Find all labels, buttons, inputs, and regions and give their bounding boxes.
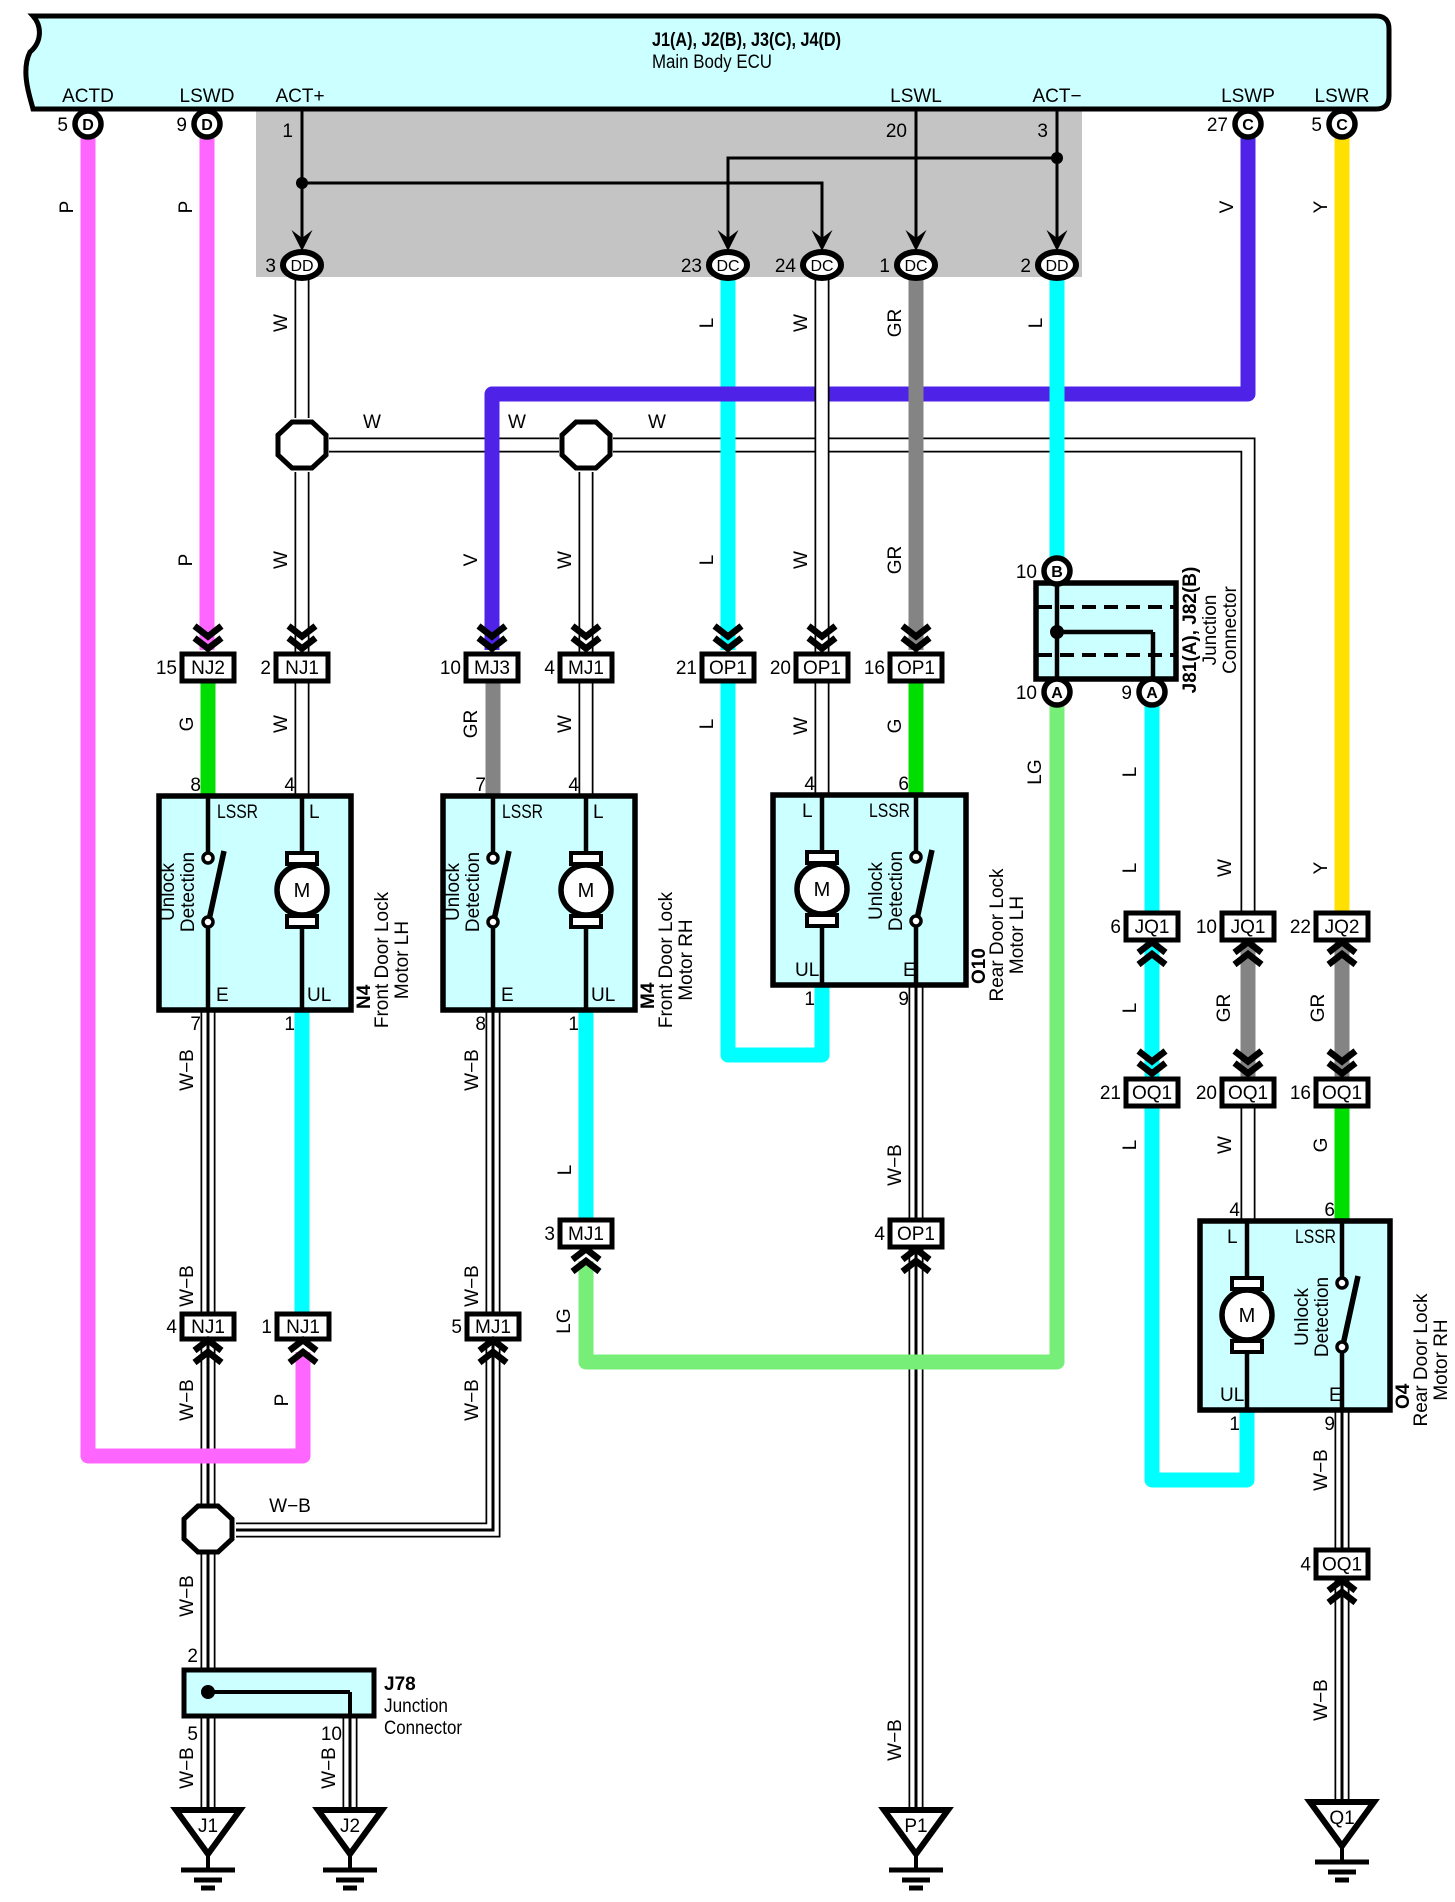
connector DC pin23 (681, 252, 747, 278)
svg-text:Unlock: Unlock (866, 861, 887, 920)
svg-text:Detection: Detection (886, 851, 907, 931)
svg-text:L: L (1227, 1227, 1238, 1248)
label P on pink riser (272, 1394, 293, 1407)
svg-text:LSSR: LSSR (217, 802, 258, 823)
M4 unlock detection text (443, 852, 484, 932)
wire W junction B right and down to JQ1-10 (613, 445, 1248, 913)
svg-text:P: P (176, 201, 197, 214)
label L above OP1-21 (697, 555, 718, 566)
Main Body ECU connector banner J1-J4 (26, 16, 1389, 109)
svg-text:10: 10 (321, 1724, 342, 1745)
connector OP1 pin 20 (770, 654, 848, 681)
label G below OP1-16 (885, 719, 906, 734)
chevron into OP1-16 (903, 626, 930, 649)
arrow into connector at x=1057 (1047, 230, 1068, 251)
svg-text:OQ1: OQ1 (1228, 1083, 1268, 1104)
O10 unlock detection text (866, 851, 907, 931)
chevron into OP1-20 (809, 626, 836, 649)
arrow into connector at x=728 (718, 230, 739, 251)
svg-text:9: 9 (176, 115, 187, 136)
svg-text:9: 9 (1121, 683, 1132, 704)
label J78 junction (384, 1696, 448, 1717)
J78 pin 10 (321, 1724, 342, 1745)
label GR between JQ1-10 OQ1-20 (1214, 994, 1235, 1023)
svg-text:L: L (1120, 863, 1141, 874)
svg-text:10: 10 (1196, 917, 1217, 938)
O10 label E (903, 960, 916, 981)
wire W from DC24 to OP1-20 (815, 277, 830, 654)
svg-text:23: 23 (681, 256, 702, 277)
wire W-B O10 E to OP1-4 (909, 981, 924, 1220)
pin name ACT&#8722; (1032, 86, 1081, 107)
wire W MJ1-4 to M4 pin4 (579, 681, 594, 797)
O10 bottom pin 9 (898, 989, 909, 1010)
svg-text:W−B: W−B (885, 1144, 906, 1186)
O10 reference label (969, 948, 990, 984)
svg-text:5: 5 (57, 115, 68, 136)
svg-text:J1: J1 (198, 1816, 218, 1837)
connector NJ1 pin 4 (166, 1314, 234, 1339)
svg-text:P1: P1 (904, 1816, 927, 1837)
svg-text:6: 6 (898, 774, 909, 795)
svg-text:3: 3 (544, 1224, 555, 1245)
connector OQ1 pin 16 (1290, 1079, 1368, 1106)
wire W-B J78 pin5 to ground J1 (201, 1714, 216, 1812)
svg-text:4: 4 (544, 658, 555, 679)
wire W-B OP1-4 to ground P1 (909, 1247, 924, 1812)
svg-text:W: W (363, 412, 381, 433)
svg-text:W−B: W−B (1311, 1449, 1332, 1491)
wire V LSWP to MJ3-10 (492, 136, 1248, 650)
O4 label UL (1220, 1385, 1244, 1406)
wire W NJ1-2 to N4 pin4 (295, 681, 310, 797)
label W below junction A (271, 551, 292, 569)
connector OQ1 pin 4 (1300, 1550, 1368, 1578)
svg-text:W−B: W−B (1311, 1679, 1332, 1721)
O4 unlock detection text (1292, 1277, 1333, 1357)
pin number 20 (886, 121, 907, 142)
ground J1 (176, 1810, 240, 1888)
svg-text:DC: DC (716, 258, 739, 275)
svg-text:D: D (201, 117, 213, 134)
label W-B below MJ1-5 (462, 1379, 483, 1421)
N4 unlock detection switch (203, 851, 224, 927)
O4 label L (1227, 1227, 1238, 1248)
label GR above OP1-16 (885, 546, 906, 575)
connector MJ1 pin 3 (544, 1220, 612, 1247)
O4 reference label (1393, 1383, 1414, 1409)
junction A octagon (278, 422, 326, 468)
svg-text:ACTD: ACTD (62, 86, 114, 107)
label LG below J81 A10 (1025, 759, 1046, 784)
svg-text:Rear Door Lock: Rear Door Lock (1411, 1293, 1432, 1427)
label GR on DC1 wire (885, 309, 906, 338)
label P on ACTD wire (57, 201, 78, 214)
svg-text:8: 8 (190, 775, 201, 796)
svg-text:LSSR: LSSR (502, 802, 543, 823)
O10 bottom pin 1 (804, 989, 815, 1010)
connector DC pin24 (775, 252, 841, 278)
arrow into connector at x=916 (906, 230, 927, 251)
svg-text:22: 22 (1290, 917, 1311, 938)
chevron into OQ1-16 (1329, 1051, 1356, 1074)
ECU internal shaded region (256, 109, 1082, 277)
arrow into connector at x=822 (812, 230, 833, 251)
svg-text:E: E (903, 960, 916, 981)
junction C octagon (184, 1506, 232, 1552)
junction connector J81(A) J82(B) (1036, 583, 1176, 692)
svg-text:L: L (1120, 767, 1141, 778)
O4 motor column wire (1245, 1221, 1250, 1410)
label W-B below M4 E (462, 1049, 483, 1091)
pin name ACT+ (275, 86, 324, 107)
N4 motor column wire (300, 796, 305, 1010)
svg-text:21: 21 (676, 658, 697, 679)
svg-text:J2: J2 (340, 1816, 360, 1837)
label W below MJ1-4 (555, 715, 576, 733)
label W-B on horizontal to junction C (269, 1496, 311, 1517)
pin name LSWL (890, 86, 942, 107)
connector B pin10 of J81 (1016, 558, 1070, 584)
svg-text:Connector: Connector (1220, 586, 1241, 674)
N4 label E (216, 985, 229, 1006)
svg-text:Rear Door Lock: Rear Door Lock (987, 868, 1008, 1002)
svg-text:Y: Y (1311, 861, 1332, 874)
wire LSWL pin20 to DC1 (915, 109, 918, 248)
svg-text:20: 20 (770, 658, 791, 679)
connector MJ1 pin 5 (451, 1314, 519, 1339)
svg-text:MJ1: MJ1 (568, 658, 604, 679)
svg-text:10: 10 (1016, 562, 1037, 583)
svg-text:L: L (802, 801, 813, 822)
svg-text:GR: GR (885, 309, 906, 338)
O10 name label (987, 868, 1028, 1002)
svg-text:A: A (1146, 685, 1158, 702)
label W-B above MJ1-5 (462, 1265, 483, 1307)
svg-text:24: 24 (775, 256, 797, 277)
svg-text:Junction: Junction (1200, 595, 1221, 666)
svg-text:6: 6 (1110, 917, 1121, 938)
svg-text:LSWD: LSWD (180, 86, 235, 107)
label W-B below O10 E (885, 1144, 906, 1186)
svg-text:J1(A), J2(B), J3(C), J4(D): J1(A), J2(B), J3(C), J4(D) (652, 30, 841, 51)
svg-text:OQ1: OQ1 (1322, 1555, 1362, 1576)
svg-text:LSWL: LSWL (890, 86, 942, 107)
svg-text:NJ1: NJ1 (285, 658, 319, 679)
svg-text:1: 1 (568, 1014, 579, 1035)
svg-text:LSWR: LSWR (1315, 86, 1370, 107)
svg-text:W: W (791, 314, 812, 332)
ground J2 (318, 1810, 382, 1888)
label GR between JQ2-22 OQ1-16 (1308, 994, 1329, 1023)
svg-text:2: 2 (1020, 256, 1031, 277)
svg-text:W−B: W−B (177, 1575, 198, 1617)
wire branch ACT- to DC23 (728, 158, 1057, 248)
connector NJ1 pin 1 (261, 1314, 329, 1339)
N4 label UL (307, 985, 331, 1006)
svg-text:UL: UL (795, 960, 819, 981)
svg-text:J81(A), J82(B): J81(A), J82(B) (1180, 567, 1201, 694)
O4 motor M (1222, 1278, 1272, 1352)
label Y on LSWR wire (1311, 200, 1332, 213)
O10 top pin 6 (898, 774, 909, 795)
svg-text:W−B: W−B (319, 1747, 340, 1789)
svg-text:E: E (1329, 1385, 1342, 1406)
svg-text:V: V (1217, 200, 1238, 213)
O4 bottom pin 9 (1324, 1414, 1335, 1435)
svg-text:DC: DC (904, 258, 927, 275)
label W after violet crossing (508, 412, 526, 433)
svg-text:W: W (555, 715, 576, 733)
svg-text:M: M (294, 880, 311, 902)
svg-text:L: L (697, 719, 718, 730)
svg-text:LSWP: LSWP (1221, 86, 1275, 107)
connector C pin27 LSWP (1207, 111, 1261, 137)
chevron into NJ2-15 (195, 626, 222, 649)
svg-text:4: 4 (284, 775, 295, 796)
svg-text:ACT+: ACT+ (275, 86, 324, 107)
svg-text:Motor LH: Motor LH (1007, 896, 1028, 974)
svg-text:L: L (309, 802, 320, 823)
svg-text:Motor RH: Motor RH (1431, 1319, 1452, 1400)
svg-text:Junction: Junction (384, 1696, 448, 1717)
svg-text:W−B: W−B (462, 1265, 483, 1307)
wire P ACTD to NJ1-1 (88, 136, 303, 1456)
wire L OQ1-21 to O4 UL (1152, 1105, 1247, 1480)
svg-text:OP1: OP1 (709, 658, 747, 679)
connector DD pin2 (1020, 252, 1076, 278)
wire W-B N4 E to NJ1-4 (201, 1006, 216, 1314)
wire Y LSWR to JQ2-22 (1335, 136, 1350, 913)
pin name LSWR (1315, 86, 1370, 107)
chevron below NJ1-4 (195, 1340, 222, 1363)
label W above OP1-20 (791, 551, 812, 569)
svg-text:4: 4 (1300, 1555, 1311, 1576)
connector D pin9 LSWD (176, 111, 220, 137)
svg-text:Motor RH: Motor RH (676, 919, 697, 1000)
svg-text:2: 2 (260, 658, 271, 679)
svg-text:DC: DC (810, 258, 833, 275)
svg-text:GR: GR (461, 710, 482, 739)
svg-text:7: 7 (190, 1014, 201, 1035)
chevron below OQ1-4 (1329, 1580, 1356, 1603)
svg-text:E: E (216, 985, 229, 1006)
connector A pin9 of J81 (1121, 679, 1165, 705)
wire G OQ1-16 to O4 pin6 (1335, 1105, 1350, 1222)
connector JQ1 pin 10 (1196, 913, 1274, 940)
svg-text:W−B: W−B (885, 1719, 906, 1761)
svg-text:4: 4 (1229, 1200, 1240, 1221)
connector JQ2 pin 22 (1290, 913, 1368, 940)
M4 name label (656, 891, 697, 1028)
svg-text:GR: GR (1308, 994, 1329, 1023)
arrow into connector at x=302 (292, 230, 313, 251)
connector DD pin3 (265, 252, 321, 278)
svg-text:1: 1 (1229, 1414, 1240, 1435)
pin number 3 (1037, 121, 1048, 142)
wire L OP1-21 to O10 UL (728, 681, 822, 1055)
chevron into OP1-21 (715, 626, 742, 649)
svg-text:Y: Y (1311, 200, 1332, 213)
svg-text:W: W (1215, 1136, 1236, 1154)
svg-text:Motor LH: Motor LH (392, 921, 413, 999)
svg-text:M: M (578, 880, 595, 902)
N4 reference label (354, 984, 375, 1009)
connector OP1 pin 16 (864, 654, 942, 681)
svg-text:W: W (791, 717, 812, 735)
chevron below MJ1-3 (573, 1249, 600, 1272)
svg-text:5: 5 (187, 1724, 198, 1745)
M4 bottom pin 1 (568, 1014, 579, 1035)
connector OP1 pin 21 (676, 654, 754, 681)
wire LG MJ1-3 to J81 pin10A (586, 705, 1057, 1362)
label W on DD3 wire (271, 314, 292, 332)
svg-text:JQ1: JQ1 (1231, 917, 1266, 938)
svg-text:16: 16 (1290, 1083, 1311, 1104)
M4 label UL (591, 985, 615, 1006)
label W below NJ1-2 (271, 715, 292, 733)
wire branch ACT+ to DC24 (302, 183, 822, 248)
label G below NJ2-15 (177, 717, 198, 732)
label P on LSWD wire lower (176, 554, 197, 567)
O10 label LSSR (869, 801, 910, 822)
wire W OP1-20 to O10 pin4 (815, 681, 830, 796)
label Y above JQ2-22 (1311, 861, 1332, 874)
connector D pin5 ACTD (57, 111, 101, 137)
wire L DC23 to OP1-21 (721, 277, 736, 650)
svg-text:4: 4 (874, 1224, 885, 1245)
label W-B above ground J1 (177, 1747, 198, 1789)
chevron into NJ1-2 (289, 626, 316, 649)
N4 bottom pin 7 (190, 1014, 201, 1035)
svg-text:M: M (1239, 1305, 1256, 1327)
svg-text:JQ1: JQ1 (1135, 917, 1170, 938)
ECU subtitle Main Body ECU (652, 52, 772, 73)
M4 switch column wire (491, 796, 496, 1010)
O10 switch column wire (914, 795, 919, 985)
svg-text:Unlock: Unlock (158, 862, 179, 921)
label W-B below junction C (177, 1575, 198, 1617)
wire L N4 UL to NJ1-1 (295, 1006, 310, 1314)
door lock motor assembly O4 (1200, 1221, 1390, 1410)
M4 reference label (638, 982, 659, 1009)
label W-B above ground P1 (885, 1719, 906, 1761)
svg-text:Unlock: Unlock (443, 862, 464, 921)
svg-text:Main Body ECU: Main Body ECU (652, 52, 772, 73)
label W above JQ1-10 (1215, 859, 1236, 877)
label J78 (384, 1674, 416, 1695)
svg-text:OP1: OP1 (803, 658, 841, 679)
label V on violet drop (461, 553, 482, 566)
svg-text:G: G (1311, 1138, 1332, 1153)
label W below junction B (555, 551, 576, 569)
svg-text:8: 8 (475, 1014, 486, 1035)
svg-text:W: W (648, 412, 666, 433)
svg-text:L: L (593, 802, 604, 823)
svg-text:MJ3: MJ3 (474, 658, 510, 679)
svg-text:L: L (1026, 318, 1047, 329)
svg-text:Detection: Detection (1312, 1277, 1333, 1357)
label L on DC23 wire (697, 318, 718, 329)
N4 unlock detection text (158, 852, 199, 932)
svg-text:LG: LG (554, 1308, 575, 1333)
label LG below MJ1-3 (554, 1308, 575, 1333)
chevron into MJ3-10 (479, 626, 506, 649)
label L on DD2 wire (1026, 318, 1047, 329)
N4 bottom pin 1 (284, 1014, 295, 1035)
chevron into MJ1-4 (573, 626, 600, 649)
svg-text:4: 4 (804, 774, 815, 795)
N4 switch column wire (206, 796, 211, 1010)
svg-text:W−B: W−B (462, 1049, 483, 1091)
ground Q1 (1310, 1802, 1374, 1880)
wire W-B junction C to J78 pin2 (201, 1552, 216, 1672)
label W-B below O4 E (1311, 1449, 1332, 1491)
svg-text:W: W (271, 551, 292, 569)
svg-text:JQ2: JQ2 (1325, 917, 1360, 938)
svg-text:UL: UL (307, 985, 331, 1006)
connector JQ1 pin 6 (1110, 913, 1178, 940)
chevron below NJ1-1 (290, 1340, 317, 1363)
O10 label UL (795, 960, 819, 981)
wire W junction A to junction B (329, 438, 559, 453)
O4 label LSSR (1295, 1227, 1336, 1248)
label J81 J82 junction connector (1180, 567, 1241, 694)
wire W junction B to MJ1-4 (579, 472, 594, 654)
svg-text:P: P (272, 1394, 293, 1407)
svg-text:LG: LG (1025, 759, 1046, 784)
svg-text:Front Door Lock: Front Door Lock (656, 891, 677, 1028)
svg-text:Q1: Q1 (1329, 1808, 1354, 1829)
svg-text:G: G (177, 717, 198, 732)
connector C pin5 LSWR (1311, 111, 1355, 137)
wire W-B O4 E to OQ1-4 (1335, 1406, 1350, 1550)
O10 motor column wire (820, 795, 825, 985)
svg-text:MJ1: MJ1 (475, 1317, 511, 1338)
svg-text:10: 10 (440, 658, 461, 679)
O4 top pin 6 (1324, 1200, 1335, 1221)
wire G NJ2-15 to N4 pin8 (201, 681, 216, 797)
svg-text:Detection: Detection (178, 852, 199, 932)
connector OQ1 pin 20 (1196, 1079, 1274, 1106)
svg-text:LSSR: LSSR (869, 801, 910, 822)
wire W-B J78 pin10 to ground J2 (343, 1714, 358, 1812)
svg-text:W−B: W−B (177, 1049, 198, 1091)
svg-text:E: E (501, 985, 514, 1006)
svg-text:W: W (508, 412, 526, 433)
svg-text:B: B (1051, 564, 1063, 581)
svg-text:L: L (1120, 1140, 1141, 1151)
svg-text:P: P (176, 554, 197, 567)
svg-text:W−B: W−B (462, 1379, 483, 1421)
wire W from DD3 to junction A (295, 277, 310, 418)
svg-text:ACT−: ACT− (1032, 86, 1081, 107)
svg-text:OP1: OP1 (897, 658, 935, 679)
ECU title (652, 30, 841, 51)
svg-text:Connector: Connector (384, 1718, 463, 1739)
svg-text:W−B: W−B (177, 1265, 198, 1307)
svg-text:OQ1: OQ1 (1322, 1083, 1362, 1104)
svg-text:L: L (1120, 1003, 1141, 1014)
label W on DC24 wire (791, 314, 812, 332)
pin name LSWP (1221, 86, 1275, 107)
svg-text:3: 3 (265, 256, 276, 277)
label W-B below N4 E (177, 1049, 198, 1091)
label L above JQ1-6 (1120, 863, 1141, 874)
svg-text:Unlock: Unlock (1292, 1287, 1313, 1346)
svg-text:1: 1 (879, 256, 890, 277)
wire L JQ1-6 to OQ1-21 (1145, 941, 1160, 1079)
